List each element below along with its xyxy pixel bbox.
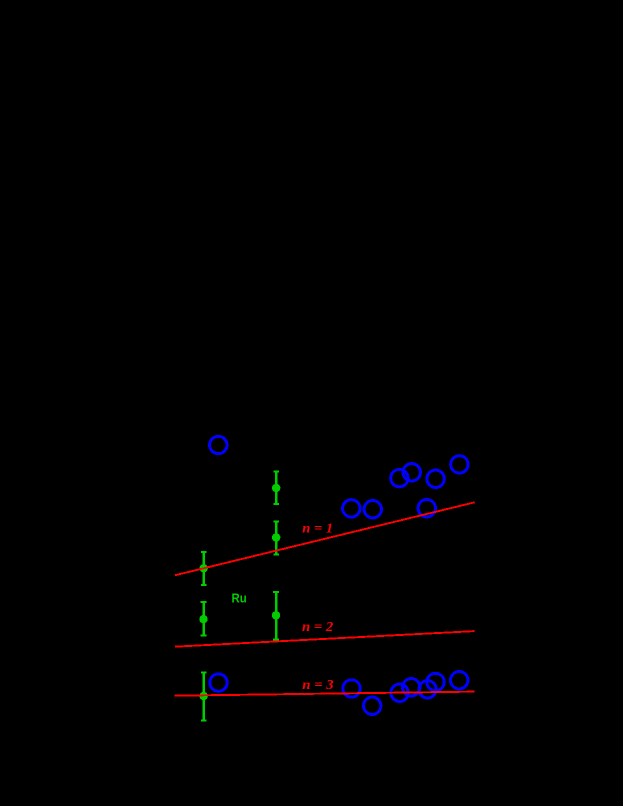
svg-text:n = 3: n = 3 [302,678,333,693]
svg-text:n = 1: n = 1 [302,522,333,537]
svg-text:n = 2: n = 2 [302,620,333,635]
svg-text:Ru: Ru [232,591,247,606]
